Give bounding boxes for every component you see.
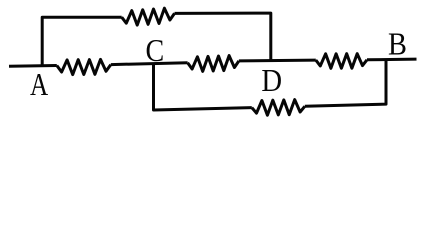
wire B lead-out — [367, 58, 417, 62]
resistor R4 (top branch) — [122, 8, 175, 25]
wire A lead-in — [9, 64, 57, 68]
wire bottom run to B riser — [305, 60, 386, 107]
svg-text:B: B — [388, 27, 407, 62]
resistor R5 (bottom branch) — [252, 100, 305, 116]
resistor R1 (A to C) — [57, 59, 111, 74]
resistor R2 (C to D) — [188, 56, 239, 72]
svg-text:A: A — [30, 68, 49, 102]
wire R1 to R2 through node C — [111, 63, 188, 65]
wire top branch left riser and top run — [42, 17, 122, 66]
resistor R3 (D to B) — [316, 54, 367, 69]
wire bottom branch C riser and bottom run — [154, 64, 252, 111]
wire top run to D riser — [175, 13, 271, 60]
svg-text:C: C — [145, 34, 164, 69]
wire R2 to R3 through node D — [239, 59, 316, 63]
svg-text:D: D — [261, 63, 282, 99]
